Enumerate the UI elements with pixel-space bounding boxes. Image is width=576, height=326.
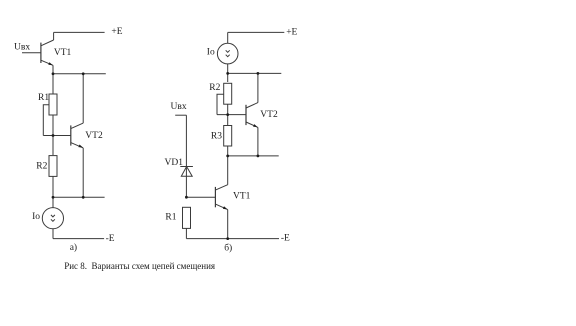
svg-text:VT2: VT2 [260,110,278,120]
svg-text:+E: +E [111,27,122,37]
svg-text:R2: R2 [36,162,47,172]
svg-text:б): б) [224,242,232,253]
svg-text:VT1: VT1 [233,192,251,202]
svg-text:Uвх: Uвх [14,42,30,52]
svg-text:Io: Io [32,212,40,222]
svg-text:R2: R2 [209,83,220,93]
svg-text:VT2: VT2 [85,131,103,141]
svg-text:VT1: VT1 [54,48,72,58]
svg-text:R3: R3 [211,132,222,142]
svg-text:а): а) [70,242,77,253]
svg-text:-E: -E [106,234,115,244]
svg-text:Uвх: Uвх [171,102,187,112]
svg-text:Io: Io [207,48,215,58]
svg-text:+E: +E [286,27,297,37]
svg-text:VD1: VD1 [165,158,184,168]
svg-text:R1: R1 [165,213,176,223]
svg-text:Рис 8. Варианты схем цепей см: Рис 8. Варианты схем цепей смещения [64,261,215,271]
svg-text:R1: R1 [38,93,49,103]
svg-text:-E: -E [281,234,290,244]
